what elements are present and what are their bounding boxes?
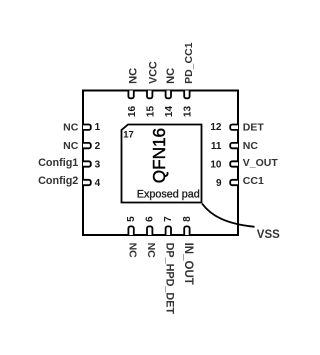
svg-text:DET: DET <box>243 122 265 134</box>
svg-text:NC: NC <box>128 68 140 84</box>
svg-text:12: 12 <box>210 122 222 133</box>
svg-text:17: 17 <box>123 129 134 140</box>
svg-text:Config2: Config2 <box>38 175 78 187</box>
svg-text:NC: NC <box>63 122 79 134</box>
svg-text:8: 8 <box>182 216 193 222</box>
svg-text:16: 16 <box>127 106 138 118</box>
svg-text:6: 6 <box>145 216 156 222</box>
svg-text:9: 9 <box>216 178 222 189</box>
svg-text:DP_HPD_DET: DP_HPD_DET <box>164 243 176 315</box>
svg-text:NC: NC <box>243 140 259 152</box>
svg-text:13: 13 <box>183 106 194 118</box>
svg-text:10: 10 <box>210 160 222 171</box>
svg-text:IN_OUT: IN_OUT <box>182 243 194 285</box>
svg-text:14: 14 <box>164 106 175 118</box>
svg-text:5: 5 <box>126 216 137 222</box>
svg-text:Exposed pad: Exposed pad <box>137 188 200 200</box>
svg-text:QFN16: QFN16 <box>149 128 169 183</box>
svg-text:NC: NC <box>63 140 79 152</box>
svg-text:11: 11 <box>211 141 222 152</box>
svg-text:PD_CC1: PD_CC1 <box>183 42 195 84</box>
svg-text:NC: NC <box>126 243 138 259</box>
svg-text:2: 2 <box>95 141 101 152</box>
svg-text:15: 15 <box>145 106 156 118</box>
svg-text:CC1: CC1 <box>243 175 264 187</box>
svg-text:VSS: VSS <box>257 229 280 241</box>
svg-text:VCC: VCC <box>148 61 160 84</box>
svg-text:4: 4 <box>95 178 101 189</box>
svg-text:3: 3 <box>95 160 101 171</box>
svg-text:NC: NC <box>165 68 177 84</box>
svg-text:1: 1 <box>95 122 101 133</box>
svg-text:NC: NC <box>145 243 157 259</box>
svg-text:7: 7 <box>163 216 174 222</box>
svg-text:V_OUT: V_OUT <box>243 157 279 169</box>
svg-text:Config1: Config1 <box>38 157 78 169</box>
